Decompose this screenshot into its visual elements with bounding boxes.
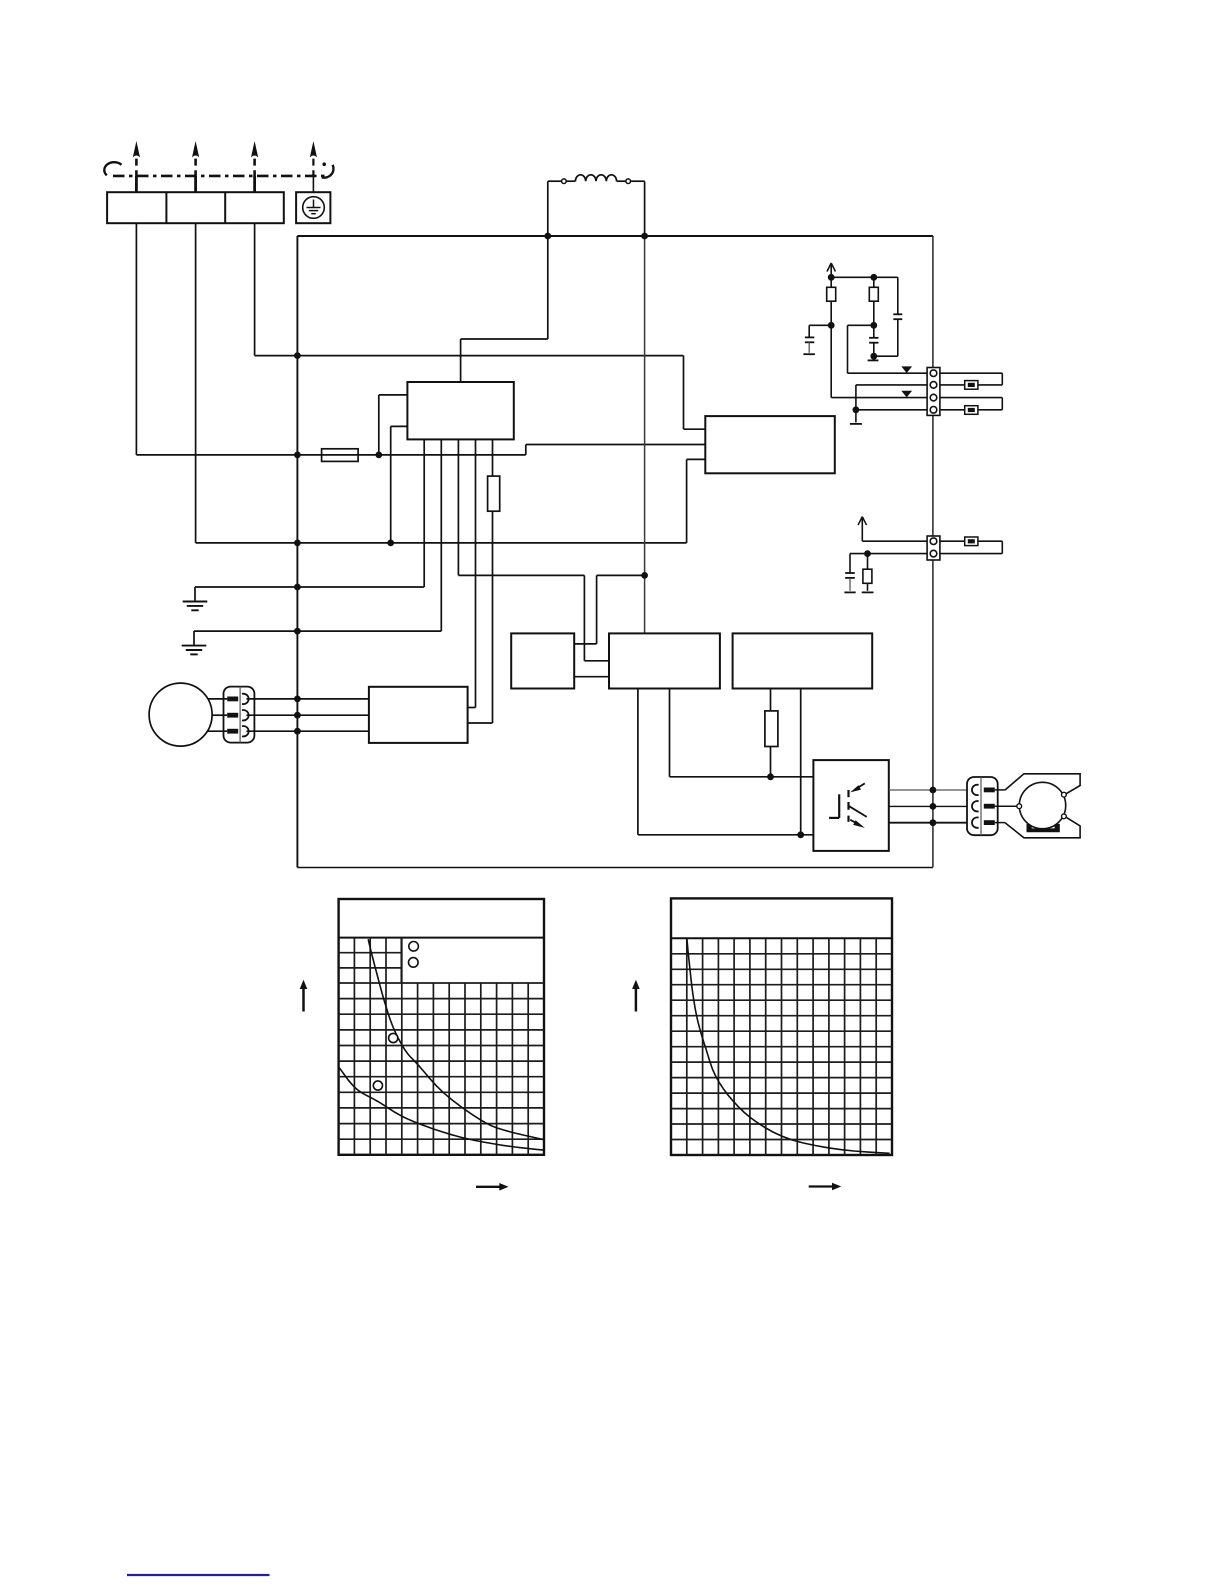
driver IC U3 [609,633,720,688]
PCB outline right edge / output bus [932,236,934,868]
wire CN1 pin4 (gnd) [856,409,930,411]
wire fuse to power module [379,454,526,456]
power module / rectifier PM1 [705,416,835,473]
wire U2 to U3 [574,676,609,678]
node W on right bus [930,819,937,826]
U1 pin1 wire to earth G1 [423,439,425,587]
fan connector CN-FM [224,687,255,743]
thermistor TH1 [965,381,978,390]
U1 left pin wire to fuse node [379,394,408,396]
graph 1 y-axis arrow [302,986,305,1012]
IGBT symbol arrow out [850,820,858,824]
wire W phase [889,822,972,824]
wire CN2 pin1 [862,540,929,542]
reactor right leg / DC bus [644,181,646,236]
graph 2 y-axis arrow [635,986,638,1012]
wire CN1 pin2 (gnd) [856,384,930,386]
node C3 bottom [870,353,877,360]
node U4 to IGBT wire [797,831,804,838]
earth ground G2 [193,631,195,646]
U1 pin4 wire to fan driver [475,439,477,707]
graph outer frame [339,899,544,1155]
wire N drop to module [683,356,685,430]
graph 1 curve B [339,1067,544,1150]
supply line arrow 3 [253,176,256,193]
wire to compressor jaw top [995,789,1005,791]
sensor supply rail [831,276,898,278]
node on L2 wire [387,540,394,547]
wire U2 to DC bus [574,643,596,645]
graph 1 x-axis arrow [476,1186,501,1188]
compressor mount bar [1027,824,1060,832]
compressor shell upper claw [1005,774,1080,794]
compressor terminal left [1017,804,1022,809]
graph header line [339,937,544,939]
wire R4 tap to CN1 pin3 [831,397,929,399]
node: N on left bus [294,352,301,359]
node: L1 on left bus [294,452,301,459]
PCB outline left edge / line bus [296,236,298,868]
wire L2 riser to power module [686,459,688,543]
node CN2 divider [864,550,871,557]
IGBT symbol gate bracket [838,794,840,818]
node after fuse [375,452,382,459]
U1 pin5 wire through resistor R2 [492,439,494,476]
graph 1 curve A [368,939,543,1139]
wire U3 pin to IGBT (upper) [669,689,671,777]
fan motor FM [149,683,212,746]
graph grid [339,938,544,1155]
node U on right bus [930,787,937,794]
node: L2 on left bus [294,540,301,547]
compressor connector CN-COMP [967,777,998,835]
PCB outline bottom edge [297,867,933,869]
fan motor wire 1 [208,698,227,700]
graph 2 x-axis arrow [809,1185,834,1187]
node reactor left on AC bus [544,233,551,240]
resistor R2 [488,476,500,511]
footer rule (blue) [127,1574,270,1576]
thermistor TH2 [965,406,978,415]
wire L1 from terminal to fuse [135,223,137,455]
wire L3 / N [254,223,256,355]
compressor motor M [1019,782,1065,828]
wire L2 [195,223,197,543]
graph 1 point marker B [373,1081,382,1090]
compressor terminal bottom-right [1062,814,1067,819]
graph 1 legend marker 1 [409,942,419,952]
node R5 tap [870,322,877,329]
node reactor right on AC bus [641,233,648,240]
wire bus to control IC top [461,338,548,340]
wire V phase [889,805,972,807]
IGBT symbol diagonal [849,806,866,817]
protective earth symbol box [296,192,330,223]
terminal block TB1 [107,192,284,223]
IPM / IGBT module Q1 [813,760,888,851]
ground stub CN1 [855,410,857,423]
polarity mark pin3 [901,391,912,398]
IGBT symbol bars [847,790,849,797]
graph outer frame [671,898,892,1155]
supply line arrow 1 [135,176,138,193]
ground bar under C3 [873,356,875,359]
IGBT symbol arrow in [856,783,865,788]
IC U4 [733,633,873,688]
+V arrow (CN2) [861,518,863,541]
resistor R5 [873,277,875,287]
node V on right bus [930,803,937,810]
node on DC bus [641,572,648,579]
wire R5 tap to CN1 pin1 [848,324,874,326]
wire CN2 pin2 [850,553,1002,555]
graph header line [671,937,892,939]
wire U3 pin to IGBT (lower) [637,689,639,835]
capacitor C3 (mid) [869,337,878,339]
wire U4 pin down [800,689,802,835]
earth ground G1 [194,587,196,602]
resistor R3 [770,689,772,711]
capacitor C1 (right) [897,277,899,314]
fan motor wire 2 [212,714,227,716]
+V arrow (sensors) [830,265,832,278]
compressor shell lower claw [1005,817,1080,838]
node R4 tap [828,322,835,329]
field wiring boundary (dash-dot) [113,175,328,178]
capacitor C4 [849,554,851,573]
wire U phase [889,789,972,791]
IC U2 (sub) [511,633,574,688]
U1 left pin wire to L2 [391,425,408,427]
earth line arrow [312,176,314,192]
thermistor TH3 [965,537,978,546]
fan driver IC U5 [369,687,468,743]
wire to compressor centre terminal [995,805,1017,807]
U1 pin2 wire to earth G2 [440,439,442,631]
graph grid [671,938,892,1155]
graph 2 curve [687,938,890,1153]
thermistor TH3 loop [940,540,965,542]
U1 pin3 wire to driver IC U3 [457,439,459,575]
connector CN2 (2p) [927,536,940,560]
node R3 to IGBT wire [767,773,774,780]
fan motor wire 3 [208,730,227,732]
supply line arrow 2 [194,176,197,193]
graph 1 point marker A [389,1033,398,1042]
PCB outline top edge / AC bus [297,235,933,237]
graph 1 legend marker 2 [409,958,419,968]
capacitor C2 (left) [809,324,831,326]
reactor left leg [547,181,549,339]
reactor L (choke) [548,180,562,182]
thermistor TH1 loop [940,372,1002,374]
connector CN1 (4p) [927,368,940,416]
control IC U1 [407,382,513,439]
thermistor TH2 loop [940,397,1002,399]
resistor R6 [867,554,869,570]
compressor terminal top-right [1062,792,1067,797]
polarity mark pin1 [901,366,912,373]
fuse F1 [322,454,379,456]
resistor R4 [830,277,832,287]
wire to compressor jaw bottom [995,822,1005,824]
